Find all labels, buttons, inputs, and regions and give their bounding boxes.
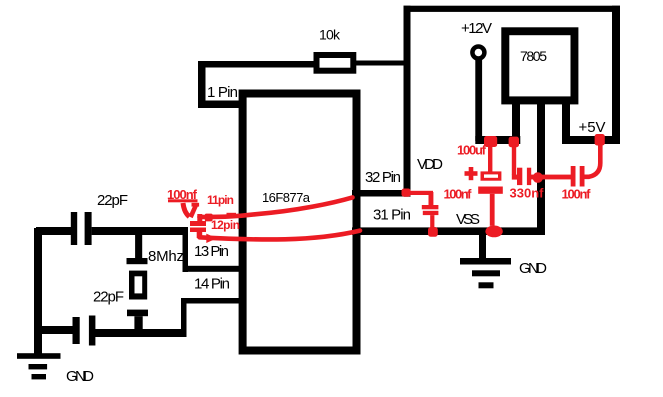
wire 1Pin top horizontal to resistor [198,61,316,68]
wire 7805 pin3 [562,100,570,140]
svg-text:8Mhz: 8Mhz [148,248,184,265]
label 100nf annotation underlined [167,187,198,202]
svg-text:31 Pin: 31 Pin [373,207,411,224]
wire 1Pin vertical [198,61,206,108]
chip U1 16F877a body [239,90,361,355]
svg-text:7805: 7805 [520,48,547,64]
svg-text:1 Pin: 1 Pin [207,84,238,101]
node junction s3 on +5V wire [595,134,605,146]
svg-text:GND: GND [66,368,94,385]
ground right: stem [479,235,486,258]
wire 14Pin stub vertical [181,298,187,336]
wire VDD vertical line / power frame left edge [404,6,411,197]
svg-text:GND: GND [519,260,547,277]
wire 7805 pin1 [512,100,520,144]
wire power frame right edge [612,6,620,144]
svg-text:10k: 10k [319,27,341,43]
svg-text:+12V: +12V [461,20,492,37]
node junction 32Pin VDD red dot [402,189,411,197]
wire left rail vertical [34,228,42,356]
svg-text:100uf: 100uf [457,143,487,158]
wire +5V horizontal [562,136,620,144]
svg-text:16F877a: 16F877a [262,190,311,205]
svg-text:100nf: 100nf [444,186,473,201]
wire bottom 22pF left segment [36,326,73,334]
svg-text:32 Pin: 32 Pin [365,169,401,186]
wire top 22pF right segment [92,227,188,235]
wire 7805 pin2 vertical down to VSS rail [537,100,545,235]
regulator U2 7805 [501,27,578,104]
wire bottom 22pF right segment [95,329,187,337]
wire VSS rail 31 Pin [352,227,545,235]
capacitor C5 100uf electrolytic [465,145,503,226]
wire top 22pF left segment [36,227,72,235]
svg-text:12pin: 12pin [211,218,240,232]
resistor R1 10k [314,52,406,74]
terminal +12V input [472,47,484,59]
capacitor C7 100nf output [571,145,601,187]
svg-text:VSS: VSS [456,211,480,228]
svg-text:VDD: VDD [417,156,443,173]
capacitor C1 22pF top [71,212,92,245]
svg-text:100nf: 100nf [562,187,592,202]
wire 1Pin bottom horizontal to chip [198,101,245,109]
wire 14 Pin horizontal [181,298,245,304]
svg-text:22pF: 22pF [97,192,128,209]
wire power frame top edge [404,6,621,12]
wire red top curve to pin32 area [200,197,353,217]
node junction big red dot on VSS rail [485,226,502,238]
arrowhead on top red wire [205,213,236,222]
capacitor C4 100nf VDD decoupling red [406,191,438,229]
svg-text:11pin: 11pin [207,193,234,207]
wire 13 Pin horizontal [183,266,245,272]
wire +12V bottom horizontal to 7805 pin1 [475,136,520,144]
arrow annotation V [183,203,199,217]
svg-text:22pF: 22pF [93,289,124,306]
node junction s1 on +12V wire [484,136,497,147]
wire 32 Pin horizontal [352,190,410,197]
node junction red dot on 7805 pin2 [533,172,543,183]
arrowhead on bottom red wire [206,234,217,243]
node junction on VSS rail red dot [428,227,438,237]
svg-text:13 Pin: 13 Pin [194,243,229,260]
ground left symbol [17,353,61,379]
svg-text:14 Pin: 14 Pin [194,276,230,293]
node junction s2 on +12V wire at pin1 [509,137,519,148]
capacitor C6 330nf [512,147,571,185]
wire 13Pin stub vertical [183,227,189,272]
wire +12V vertical [475,59,482,141]
svg-text:330nf: 330nf [510,186,545,201]
crystal X1 8Mhz [127,235,149,334]
wire red bottom curve to VSS rail [200,231,361,240]
capacitor C2 22pF bottom [73,316,96,346]
capacitor C3 100nf red between pins [190,214,206,238]
ground right symbol [460,258,511,288]
svg-text:+5V: +5V [579,119,606,136]
